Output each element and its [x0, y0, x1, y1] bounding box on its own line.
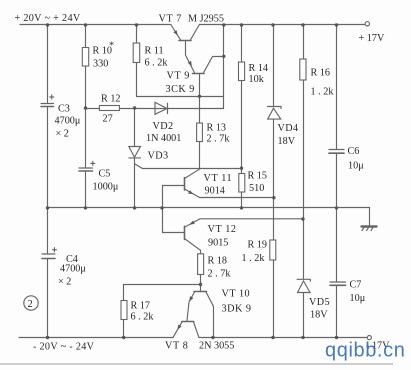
svg-text:R 15: R 15: [248, 171, 268, 182]
svg-text:qqibb.cn: qqibb.cn: [325, 340, 405, 362]
svg-text:27: 27: [103, 114, 113, 125]
svg-text:R 16: R 16: [311, 68, 331, 79]
svg-text:R 14: R 14: [249, 63, 269, 74]
svg-text:9014: 9014: [205, 186, 225, 197]
svg-text:VT 7: VT 7: [159, 14, 182, 25]
svg-text:10k: 10k: [249, 74, 265, 85]
svg-text:VT 10: VT 10: [222, 289, 251, 300]
svg-text:3CK 9: 3CK 9: [166, 84, 195, 95]
svg-text:+ 17V: + 17V: [359, 33, 385, 44]
svg-text:- 20V ~ - 24V: - 20V ~ - 24V: [33, 342, 95, 353]
svg-text:1 . 2k: 1 . 2k: [242, 253, 266, 264]
svg-text:2 . 7k: 2 . 7k: [208, 269, 232, 280]
svg-text:18V: 18V: [310, 310, 328, 321]
svg-text:VT 11: VT 11: [204, 173, 233, 184]
svg-text:330: 330: [93, 59, 108, 70]
svg-text:3DK 9: 3DK 9: [222, 304, 252, 315]
svg-text:9015: 9015: [208, 238, 228, 249]
svg-text:VD2: VD2: [153, 121, 174, 132]
svg-text:M J2955: M J2955: [188, 14, 224, 25]
svg-text:R 11: R 11: [145, 46, 164, 57]
svg-text:C7: C7: [350, 280, 362, 291]
svg-text:2: 2: [28, 299, 33, 310]
svg-text:VD4: VD4: [278, 123, 299, 134]
svg-text:R 13: R 13: [207, 123, 227, 134]
svg-text:R 18: R 18: [208, 256, 228, 267]
svg-text:C6: C6: [348, 146, 360, 157]
svg-text:× 2: × 2: [56, 129, 69, 140]
svg-text:VD5: VD5: [309, 297, 330, 308]
svg-text:18V: 18V: [278, 136, 296, 147]
svg-text:R 17: R 17: [131, 301, 151, 312]
svg-text:+ 20V ~ + 24V: + 20V ~ + 24V: [15, 13, 81, 24]
svg-text:C3: C3: [58, 104, 70, 115]
svg-text:4700μ: 4700μ: [60, 264, 86, 275]
svg-text:510: 510: [249, 183, 264, 194]
svg-text:10μ: 10μ: [348, 161, 364, 172]
svg-text:4700μ: 4700μ: [55, 116, 81, 127]
svg-text:1N 4001: 1N 4001: [146, 133, 181, 144]
svg-text:6 . 2k: 6 . 2k: [131, 312, 155, 323]
svg-text:6 . 2k: 6 . 2k: [145, 58, 169, 69]
svg-text:2 . 7k: 2 . 7k: [207, 134, 231, 145]
svg-text:*: *: [109, 41, 114, 52]
svg-text:× 2: × 2: [58, 277, 71, 288]
svg-text:VT 8: VT 8: [165, 341, 188, 352]
svg-text:10μ: 10μ: [350, 293, 366, 304]
svg-text:R 12: R 12: [101, 94, 121, 105]
svg-text:VT 9: VT 9: [167, 71, 190, 82]
svg-text:2N 3055: 2N 3055: [199, 341, 234, 352]
svg-text:R 19: R 19: [248, 240, 268, 251]
svg-text:VD3: VD3: [148, 151, 169, 162]
svg-text:C5: C5: [99, 169, 111, 180]
svg-text:VT 12: VT 12: [208, 224, 237, 235]
svg-text:1000μ: 1000μ: [93, 182, 119, 193]
svg-text:1 . 2k: 1 . 2k: [311, 87, 335, 98]
